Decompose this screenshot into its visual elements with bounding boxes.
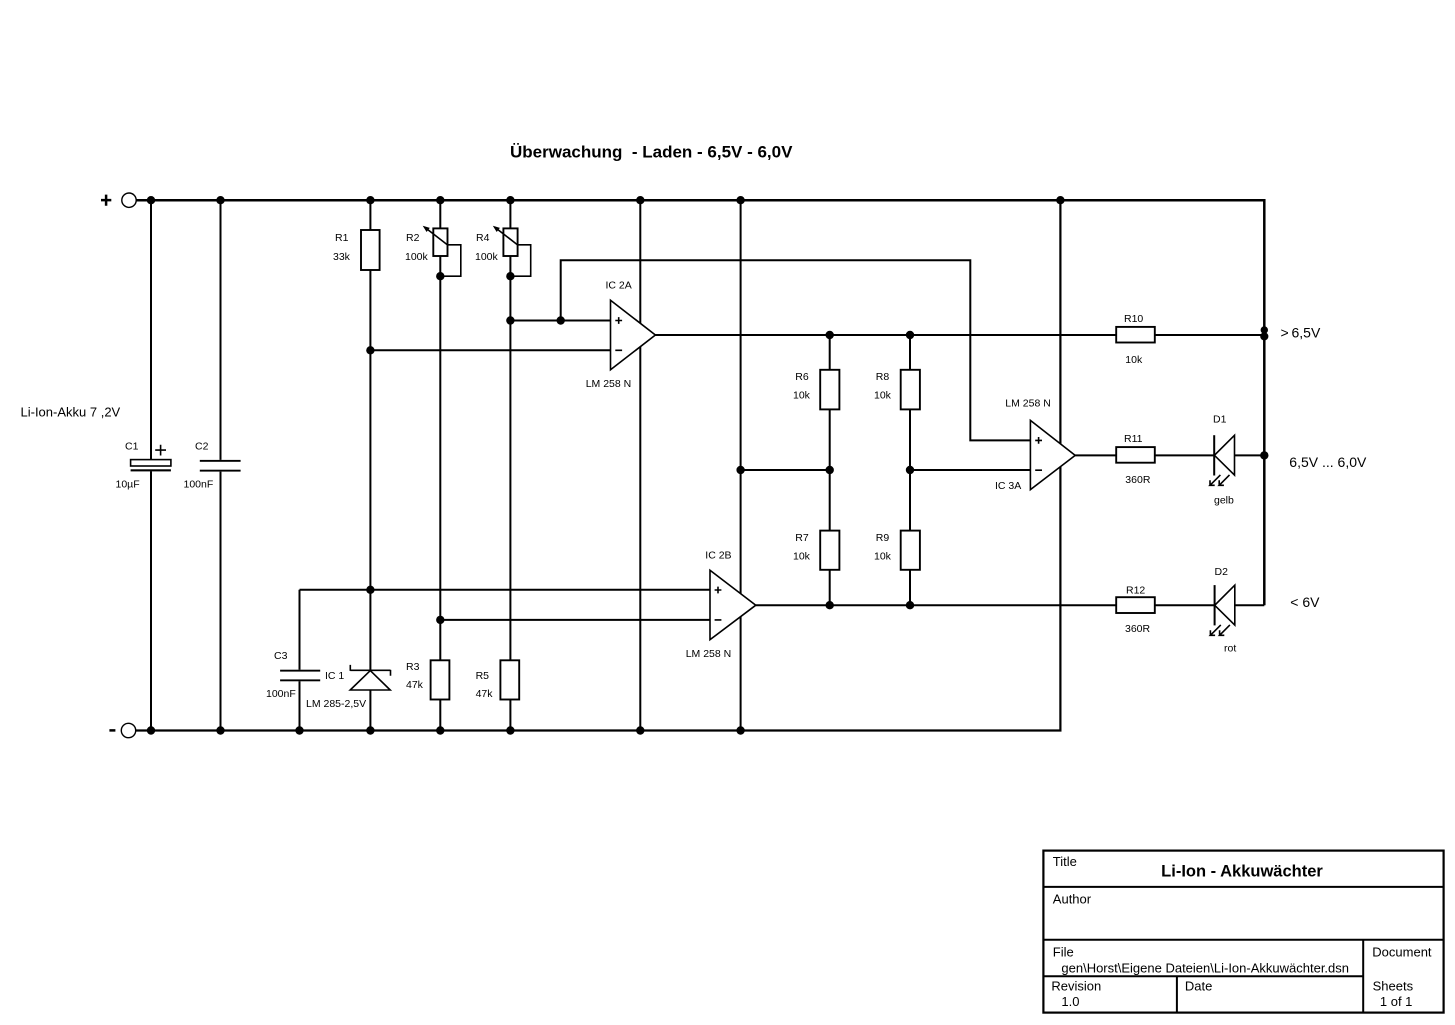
- trimmer R4: [493, 226, 518, 256]
- op-amp IC2B: [710, 570, 756, 639]
- wire R2 / R3 column: [439, 200, 441, 730]
- junction dots mid divider line: [736, 466, 914, 474]
- svg-text:100k: 100k: [475, 251, 499, 263]
- resistor R10: [1116, 327, 1155, 343]
- wire R4 wiper: [510, 245, 530, 276]
- svg-text:R6: R6: [795, 371, 809, 383]
- svg-text:< 6V: < 6V: [1290, 594, 1320, 610]
- svg-text:47k: 47k: [406, 679, 424, 691]
- junction dots IC2A output line: [826, 326, 1269, 340]
- title block frame: [1043, 851, 1443, 1013]
- svg-text:Sheets: Sheets: [1373, 979, 1414, 994]
- terminal plus: [101, 193, 136, 207]
- resistor R11: [1116, 447, 1155, 463]
- svg-text:C2: C2: [195, 441, 209, 453]
- svg-text:R9: R9: [876, 532, 890, 544]
- svg-text:Date: Date: [1185, 979, 1212, 994]
- wire C1 column: [150, 200, 152, 730]
- resistor R7: [820, 531, 839, 570]
- wire R8 / R9 column: [909, 335, 911, 605]
- wire IC2A inverting input from reference node: [370, 349, 610, 351]
- svg-text:> 6,5V: > 6,5V: [1281, 325, 1321, 341]
- svg-text:R12: R12: [1126, 585, 1145, 597]
- junction dots IC2B output line: [826, 601, 915, 609]
- svg-text:gen\Horst\Eigene Dateien\Li-Io: gen\Horst\Eigene Dateien\Li-Ion-Akkuwäch…: [1061, 961, 1349, 976]
- svg-text:47k: 47k: [476, 688, 494, 700]
- svg-text:33k: 33k: [333, 251, 351, 263]
- svg-text:IC 2A: IC 2A: [606, 280, 632, 292]
- svg-text:360R: 360R: [1125, 474, 1151, 486]
- svg-text:10k: 10k: [793, 551, 811, 563]
- trimmer R2: [423, 226, 448, 256]
- svg-text:10µF: 10µF: [116, 479, 140, 491]
- junction dot IC3A output at right rail: [1260, 451, 1268, 459]
- wire supply column x740: [740, 200, 742, 730]
- junction dot R2 wiper node: [436, 272, 444, 280]
- junction dot divider to IC2B minus: [436, 616, 444, 624]
- wire R1 / IC1 column: [369, 200, 371, 730]
- svg-text:rot: rot: [1224, 643, 1236, 655]
- junction dot R4 wiper node: [506, 272, 514, 280]
- svg-text:IC 2B: IC 2B: [705, 550, 731, 562]
- svg-text:100k: 100k: [405, 251, 429, 263]
- LED D1: [1210, 435, 1235, 485]
- svg-text:R3: R3: [406, 661, 420, 673]
- svg-text:Author: Author: [1053, 892, 1092, 907]
- svg-text:R8: R8: [876, 371, 890, 383]
- svg-text:10k: 10k: [874, 390, 892, 402]
- svg-text:100nF: 100nF: [184, 479, 214, 491]
- svg-text:IC 1: IC 1: [325, 670, 344, 682]
- svg-text:10k: 10k: [793, 390, 811, 402]
- svg-text:Li-Ion-Akku 7 ,2V: Li-Ion-Akku 7 ,2V: [21, 405, 121, 420]
- svg-text:LM 258 N: LM 258 N: [686, 648, 732, 660]
- op-amp IC2A: [611, 300, 656, 370]
- capacitor C2: [200, 460, 241, 472]
- wire R2 wiper: [440, 245, 461, 276]
- svg-text:R11: R11: [1124, 433, 1143, 445]
- svg-text:C3: C3: [274, 650, 288, 662]
- svg-text:C1: C1: [125, 441, 139, 453]
- wire C2 column: [220, 200, 222, 730]
- wire IC2B non-inverting input from reference node: [300, 589, 711, 591]
- resistor R3: [431, 660, 450, 699]
- wire IC3A output to R11: [1075, 454, 1264, 456]
- svg-text:R1: R1: [335, 232, 349, 244]
- resistor R8: [901, 370, 920, 410]
- LED D2: [1210, 585, 1234, 635]
- svg-text:File: File: [1053, 945, 1074, 960]
- wire IC2B inverting input from R2/R3 divider: [440, 619, 710, 621]
- svg-text:Li-Ion - Akkuwächter: Li-Ion - Akkuwächter: [1161, 863, 1323, 881]
- capacitor C3: [280, 670, 320, 682]
- resistor R6: [820, 370, 839, 410]
- svg-text:R5: R5: [476, 670, 490, 682]
- svg-text:LM 258 N: LM 258 N: [586, 378, 632, 390]
- op-amp IC3A: [1030, 420, 1075, 489]
- wire supply column x640: [639, 200, 641, 730]
- wire bottom V- rail with riser at x1060: [136, 200, 1061, 730]
- junction dot reference to IC2A minus: [366, 346, 374, 354]
- svg-text:Überwachung - Laden - 6,5V -: Überwachung - Laden - 6,5V - 6,0V: [510, 143, 793, 162]
- svg-text:10k: 10k: [874, 551, 892, 563]
- capacitor C1 electrolytic: [131, 445, 171, 472]
- wire R8 bottom to IC3A inverting input: [910, 469, 1030, 471]
- junction dots top rail: [147, 196, 1065, 204]
- wire R6 bottom to x740 column: [741, 469, 830, 471]
- wire R4 / R5 column: [509, 200, 511, 730]
- terminal minus: [109, 723, 135, 737]
- wire R6 / R7 column: [829, 335, 831, 605]
- svg-text:Title: Title: [1053, 854, 1077, 869]
- wire IC2A non-inverting input from R4/R5 divider: [510, 320, 610, 322]
- svg-text:IC 3A: IC 3A: [995, 480, 1021, 492]
- svg-text:Document: Document: [1372, 945, 1432, 960]
- wire IC2B output to R12: [756, 604, 1265, 606]
- junction dot branch to IC3A plus: [557, 316, 565, 324]
- svg-text:LM 258 N: LM 258 N: [1005, 398, 1051, 410]
- wire node to IC3A non-inverting input: [561, 260, 1031, 440]
- svg-text:100nF: 100nF: [266, 688, 296, 700]
- svg-text:LM 285-2,5V: LM 285-2,5V: [306, 698, 366, 710]
- svg-text:1.0: 1.0: [1061, 994, 1079, 1009]
- resistor R5: [500, 660, 519, 699]
- wire top V+ rail with right drop: [136, 200, 1264, 605]
- resistor R12: [1116, 597, 1155, 613]
- svg-text:6,5V ... 6,0V: 6,5V ... 6,0V: [1289, 454, 1367, 470]
- junction dot divider to IC2A plus: [506, 316, 514, 324]
- svg-text:R7: R7: [795, 532, 809, 544]
- svg-text:R2: R2: [406, 232, 420, 244]
- svg-text:360R: 360R: [1125, 623, 1151, 635]
- svg-text:10k: 10k: [1125, 354, 1143, 366]
- resistor R9: [901, 531, 920, 570]
- svg-text:D1: D1: [1213, 414, 1227, 426]
- svg-text:R4: R4: [476, 232, 490, 244]
- resistor R1: [361, 230, 380, 270]
- svg-text:R10: R10: [1124, 313, 1143, 325]
- svg-text:1 of 1: 1 of 1: [1380, 994, 1413, 1009]
- junction dots bottom rail: [147, 726, 745, 734]
- svg-text:D2: D2: [1215, 566, 1229, 578]
- svg-text:Revision: Revision: [1051, 979, 1101, 994]
- junction dot reference to IC2B plus: [366, 586, 374, 594]
- voltage reference IC1 LM285-2.5V: [350, 665, 390, 690]
- wire IC2A output to R10 and right rail: [655, 334, 1264, 336]
- wire C3 column: [299, 590, 301, 731]
- svg-text:gelb: gelb: [1214, 495, 1234, 507]
